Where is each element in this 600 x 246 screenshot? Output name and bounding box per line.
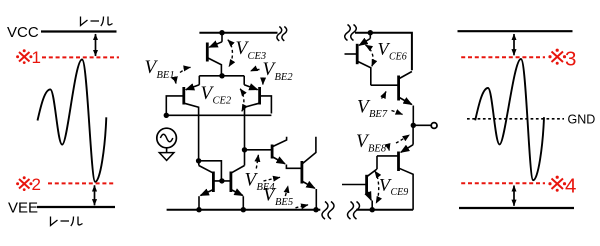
break mark bottom middle rail — [322, 202, 328, 220]
svg-text:BE2: BE2 — [275, 72, 294, 83]
transistor Q4 (NPN darlington first, V_BE4) — [272, 137, 301, 169]
svg-text:BE8: BE8 — [368, 144, 387, 155]
waveform right output swing — [475, 59, 544, 180]
transistor QB (NPN current mirror right) — [231, 150, 245, 210]
node junction dot rail/Q6 emitter — [368, 30, 373, 35]
node junction dot rail/Q3 emitter — [219, 30, 224, 35]
label ※2 — [16, 176, 32, 191]
node junction dot mirror bases — [219, 178, 224, 183]
output terminal circle — [431, 123, 437, 129]
svg-text:2: 2 — [32, 175, 41, 194]
arrow headroom bottom-left double arrow — [94, 185, 96, 205]
wire red dashed level line ※1 — [42, 56, 119, 58]
transistor Q8 (PNP lower output, V_BE8) — [377, 125, 413, 209]
transistor QA (NPN current mirror left) — [199, 161, 214, 210]
svg-text:CE9: CE9 — [391, 187, 409, 198]
label V_CE6 with dashed measure arrow — [366, 45, 374, 66]
wire top rail middle — [199, 32, 277, 34]
transistor Q2 (PNP right of diff pair, V_BE2) — [244, 76, 271, 148]
label レール (rail) top-left — [81, 17, 113, 27]
wire VCC rail line — [41, 30, 117, 32]
label ※3 — [548, 49, 566, 65]
transistor Q9 (NPN, V_CE9) — [342, 156, 377, 210]
svg-text:BE1: BE1 — [157, 70, 175, 81]
break mark top right rail — [345, 25, 351, 41]
wire red dashed level line ※4 — [461, 182, 545, 184]
label V_CE9 with dashed measure arrow — [375, 171, 379, 203]
node junction dot Q9 emitter on rail — [370, 207, 375, 212]
wire bottom rail middle — [167, 209, 321, 211]
svg-text:GND: GND — [568, 113, 596, 127]
wire output lead — [413, 124, 431, 126]
label V_CE3 with dashed measure arrow — [228, 40, 233, 67]
node junction dot QA emitter on rail — [196, 207, 201, 212]
node junction dot Q3 collector / diff pair emitters — [219, 73, 224, 78]
wire bottom rail line right — [459, 207, 574, 209]
node junction dot Q5 emitter on rail — [313, 207, 318, 212]
wire Q7 base lead — [371, 84, 399, 86]
wire input bias line from source to bases — [166, 114, 271, 116]
label ※1 — [16, 49, 32, 64]
svg-text:CE2: CE2 — [213, 96, 232, 107]
break mark bottom right rail — [348, 202, 354, 220]
transistor Q3 (PNP, V_CE3) — [207, 33, 222, 76]
wire VEE rail line — [37, 206, 115, 208]
transistor Q6 (PNP, V_CE6) — [345, 33, 371, 85]
svg-text:VCC: VCC — [7, 24, 39, 41]
wire bottom rail right segment — [356, 209, 413, 211]
wire mirror common base — [213, 180, 231, 182]
node junction dot AC source top — [164, 113, 169, 118]
wire Q4 base lead — [245, 149, 272, 151]
AC source (signal input) — [157, 128, 177, 148]
label レール (rail) bottom-left — [51, 217, 83, 227]
break mark top middle rail — [277, 27, 282, 41]
svg-text:CE6: CE6 — [389, 52, 407, 63]
wire top rail right segment — [355, 33, 412, 71]
transistor Q5 (NPN darlington second, V_BE5) — [302, 137, 316, 210]
node junction dot QB emitter on rail — [241, 207, 246, 212]
svg-text:BE7: BE7 — [369, 109, 388, 120]
node junction dot Q2 collector to Q4 base — [242, 147, 247, 152]
transistor Q7 (NPN upper output, V_BE7) — [399, 72, 414, 126]
label ※4 — [548, 176, 566, 192]
ground symbol for AC source — [166, 148, 168, 153]
svg-text:BE5: BE5 — [275, 197, 293, 208]
wire red dashed level line ※2 — [48, 182, 115, 184]
wire red dashed level line ※3 — [461, 56, 545, 58]
arrow headroom top-left double arrow — [95, 34, 97, 56]
wire mirror input node — [196, 158, 201, 163]
arrow headroom top-right double arrow — [513, 34, 515, 55]
waveform left output swing — [38, 60, 107, 182]
wire top rail line right — [458, 30, 573, 32]
wire GND dotted line — [467, 118, 564, 120]
svg-text:VEE: VEE — [8, 200, 38, 217]
svg-text:4: 4 — [565, 175, 576, 198]
svg-text:3: 3 — [565, 48, 576, 71]
svg-text:1: 1 — [32, 48, 41, 67]
transistor Q1 (PNP left of diff pair, V_BE1) — [166, 76, 199, 161]
node output junction dot — [411, 123, 416, 128]
wire diff pair emitter bus — [199, 75, 244, 77]
arrow headroom bottom-right double arrow — [513, 186, 515, 206]
